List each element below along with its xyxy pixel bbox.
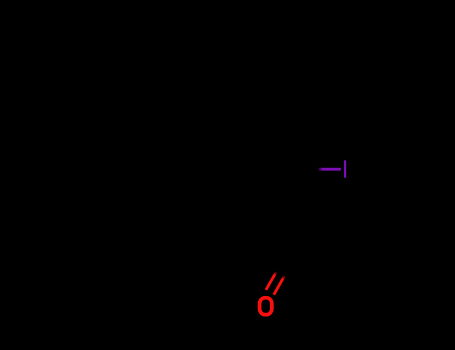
bond C=O line 1 (outer red half) — [266, 272, 276, 290]
atom label O (oxygen) — [260, 298, 272, 315]
bond C=O line 2 (inner red half) — [274, 276, 285, 295]
atom label I (iodine) — [344, 160, 346, 177]
bond C-I (purple half, toward iodine) — [318, 168, 341, 171]
